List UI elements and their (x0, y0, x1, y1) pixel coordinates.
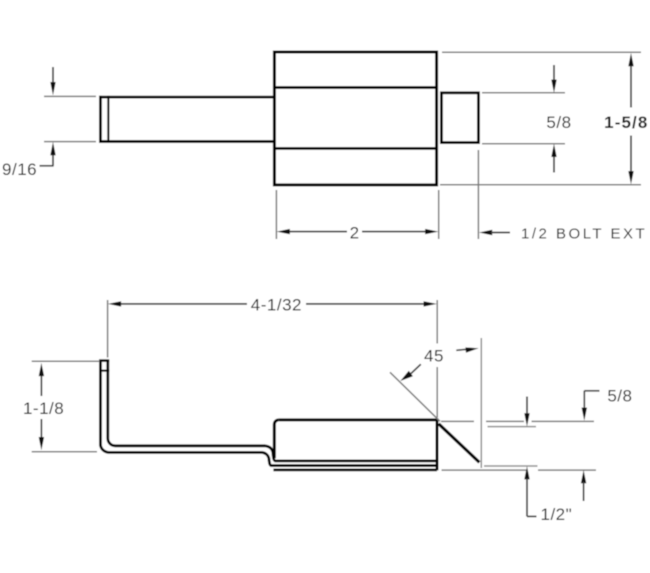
45 leader to vertical arrow (465, 347, 478, 352)
extension line top edge right segment b (486, 420, 524, 422)
dimension 1-5/8 line lower (630, 136, 632, 173)
dimension 9/16 leader (40, 165, 54, 167)
dimension 4-1/32 line left (120, 303, 248, 305)
extension line 4-1/32 right vertical lower (436, 367, 438, 418)
dimension 4-1/32 line right (306, 303, 425, 305)
dimension 1-5/8 line upper (630, 64, 632, 108)
body inner line lower (273, 147, 437, 150)
svg-text:2: 2 (350, 224, 359, 243)
svg-text:1-1/8: 1-1/8 (23, 399, 64, 418)
dimension 1/2 bottom arrow (524, 466, 529, 479)
extension line top for 1-5/8 (442, 51, 641, 53)
dimension 5/8 bottom tail (583, 482, 585, 501)
extension line chamfer bottom (484, 465, 538, 467)
body rectangle outline (274, 52, 436, 185)
svg-text:1/2": 1/2" (541, 505, 573, 524)
dimension 5/8 top tail (583, 391, 585, 409)
dimension 1/2 bracket (527, 515, 537, 517)
dimension 9/16 top arrow (52, 67, 54, 83)
extension line 4-1/32 left vertical (107, 300, 109, 358)
dimension 1/2 bolt ext arrow (479, 230, 492, 235)
dimension 2 line right (362, 231, 427, 233)
chamfer extension diagonal (390, 372, 440, 421)
svg-text:45: 45 (424, 346, 444, 365)
shaft top edge (99, 96, 274, 99)
extension line chamfer top (488, 426, 537, 428)
45 leader to chamfer tail (411, 364, 421, 373)
L-bar top end cap (99, 359, 109, 362)
block left edge and rounded top-left corner (274, 420, 279, 458)
extension line 1-1/8 bottom (32, 451, 97, 453)
step S-curve lower (262, 452, 271, 465)
dimension 4-1/32 right arrow (424, 301, 437, 306)
L-bar outer left edge with bottom bend (100, 360, 262, 452)
svg-text:1-5/8: 1-5/8 (604, 113, 648, 132)
dimension 4-1/32 left arrow (108, 301, 121, 306)
dimension 1-1/8 line upper (40, 375, 42, 396)
svg-text:4-1/32: 4-1/32 (251, 296, 302, 315)
extension line 1-1/8 top (32, 360, 100, 362)
block inner line 2 (271, 464, 437, 467)
block top edge (279, 418, 439, 421)
shaft bottom edge (99, 140, 274, 143)
dimension 1/2 bottom tail (526, 479, 528, 517)
dimension 1-5/8 top arrow (628, 53, 633, 66)
dimension 2 left arrow (277, 229, 290, 234)
dimension 2 right arrow (425, 229, 438, 234)
extension line top edge right segment a (441, 420, 474, 422)
dimension 1-1/8 top arrow (39, 363, 44, 376)
extension line top for 9/16 (44, 95, 96, 97)
dimension 1-5/8 bottom arrow (628, 171, 633, 184)
L-bar end double-line tick (99, 370, 109, 372)
L-bar inner right edge with bottom bend (108, 360, 266, 446)
bolt extension rectangle (441, 93, 478, 143)
extension line for 1/2 bolt ext (477, 150, 479, 239)
extension line bottom for 5/8 (482, 143, 565, 145)
extension line top edge right segment c (532, 420, 595, 422)
extension line top for 5/8 (482, 92, 565, 94)
block bottom edge (273, 468, 437, 471)
extension line right for 2 (438, 190, 440, 239)
dimension 5/8 top arrow (582, 408, 587, 421)
45 leader to vertical tail (456, 349, 467, 350)
chamfer 45 degree face (439, 424, 480, 463)
dimension 5/8 bottom arrow (553, 155, 555, 173)
extension line bottom for 1-5/8 (440, 184, 641, 186)
extension line vertical at part end (480, 338, 482, 468)
45 leader to chamfer arrow (400, 371, 413, 381)
dimension 5/8 top arrow (553, 65, 555, 81)
dimension 5/8 bracket horizontal (584, 390, 599, 392)
extension line 4-1/32 right vertical upper (436, 300, 438, 344)
block inner line 1 (275, 459, 437, 462)
extension line bottom edge segment b (538, 469, 596, 471)
dimension 2 line left (288, 231, 347, 233)
dimension 1/2 bolt ext tail (491, 232, 510, 234)
dimension 1/2 top arrow (524, 413, 529, 426)
extension line left for 2 (275, 190, 277, 239)
svg-text:1/2 BOLT EXT: 1/2 BOLT EXT (521, 226, 647, 243)
step S-curve upper (266, 446, 276, 461)
svg-text:5/8: 5/8 (607, 387, 632, 406)
dimension 1/2 top arrow tail (526, 397, 528, 415)
extension line bottom for 9/16 (44, 141, 96, 143)
svg-text:9/16: 9/16 (2, 160, 37, 179)
dimension 9/16 bottom arrow (52, 154, 54, 166)
shaft left end cap (99, 96, 102, 143)
dimension 1-1/8 bottom arrow (39, 437, 44, 450)
shaft end double-line tick (107, 96, 109, 143)
dimension 1-1/8 line lower (40, 419, 42, 438)
svg-text:5/8: 5/8 (546, 113, 571, 132)
body inner line upper (273, 86, 437, 89)
block right edge (436, 419, 439, 471)
extension line bottom edge segment a (442, 469, 527, 471)
dimension 5/8 bottom arrow (581, 470, 586, 483)
